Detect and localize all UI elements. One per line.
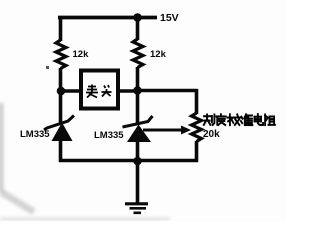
svg-text:12k: 12k: [150, 49, 167, 60]
svg-text:LM335: LM335: [20, 129, 50, 140]
svg-text:20k: 20k: [203, 129, 220, 140]
svg-text:15V: 15V: [160, 12, 179, 24]
svg-text:LM335: LM335: [94, 130, 124, 141]
svg-text:12k: 12k: [73, 49, 90, 60]
